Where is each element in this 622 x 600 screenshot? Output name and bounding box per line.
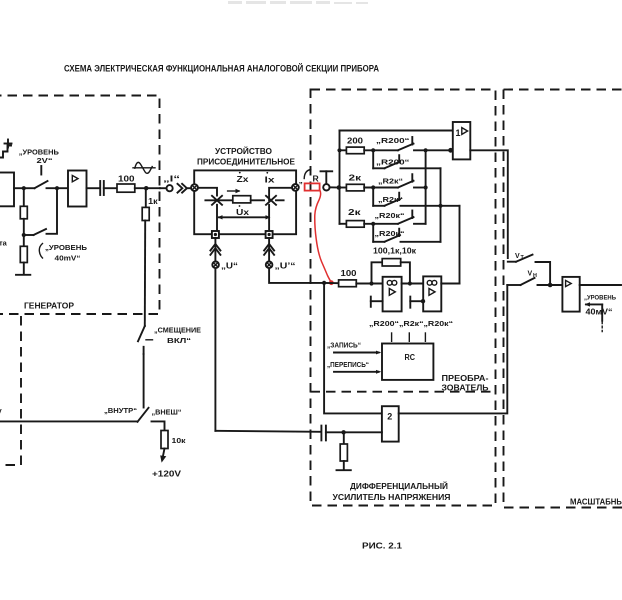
- svg-text:V: V: [528, 270, 533, 277]
- svg-text:„R20к“: „R20к“: [375, 211, 405, 220]
- op-amp 1 box: [453, 122, 471, 159]
- svg-text:ГЕНЕРАТОР: ГЕНЕРАТОР: [24, 302, 75, 311]
- row3 wire to bus A: [414, 187, 426, 189]
- connector circle on generator output: [167, 185, 173, 191]
- node F junction: [337, 185, 342, 190]
- wire U1 output to capacitor: [87, 187, 100, 189]
- row6 switch R20k: [373, 229, 400, 242]
- wire offset switch down to selector: [143, 354, 145, 408]
- svg-text:„U“: „U“: [221, 261, 238, 270]
- +120V supply arrow: [160, 449, 166, 463]
- svg-text:ЗОВАТЕЛЬ: ЗОВАТЕЛЬ: [442, 384, 489, 393]
- right measure node X: [266, 196, 276, 205]
- red junction dot: [329, 280, 334, 285]
- resistor R1 (vertical): [20, 206, 27, 219]
- svg-text:„I“: „I“: [163, 175, 180, 184]
- wire amp B output to bus C: [441, 283, 459, 285]
- svg-text:100: 100: [341, 269, 358, 278]
- ЗАПИСЬ input arrow: [334, 351, 381, 355]
- row5 switch R20k: [364, 211, 413, 224]
- riser row1-row2: [372, 150, 374, 168]
- row1 wire to amp input: [414, 149, 453, 151]
- output wire to right edge: [580, 284, 621, 286]
- amp B box (infinity gain): [423, 276, 441, 311]
- node C junction: [22, 233, 26, 237]
- svg-text:„R20к“: „R20к“: [375, 229, 405, 238]
- svg-text:2к: 2к: [349, 174, 362, 183]
- left measure node X: [212, 196, 222, 205]
- svg-text:+120V: +120V: [152, 469, 181, 479]
- svg-text:„ВНЕШ“: „ВНЕШ“: [152, 408, 182, 417]
- svg-text:2к: 2к: [348, 208, 361, 217]
- svg-text:RC: RC: [405, 353, 416, 362]
- svg-text:ПРИСОЕДИНИТЕЛЬНОЕ: ПРИСОЕДИНИТЕЛЬНОЕ: [197, 158, 296, 167]
- right arm down to bottom rail: [268, 205, 270, 231]
- wire from left edge to selector common: [0, 420, 138, 422]
- wire connector to node F: [330, 186, 340, 188]
- wire 1k down to offset switch: [144, 221, 146, 327]
- sine symbol: [133, 162, 155, 173]
- left shielding chevrons: [210, 244, 220, 255]
- svg-text:Zx: Zx: [237, 175, 250, 184]
- lower-left partial dashed block: [0, 316, 21, 465]
- wire U left down: [214, 238, 216, 431]
- U wire to coupling capacitor: [215, 431, 320, 432]
- switch VH: [507, 278, 534, 285]
- ground bar: [16, 274, 30, 276]
- VT wire to junction: [536, 262, 551, 285]
- left node stub: [205, 199, 232, 201]
- riser node B down to 40mV switch: [47, 188, 58, 234]
- wire chevron to device input connector: [187, 187, 192, 189]
- shield bar T symbol: [321, 170, 333, 172]
- wire amp output to VT: [470, 150, 508, 258]
- switch "СМЕЩЕНИЕ ВКЛ": [138, 326, 145, 354]
- double chevron coupling symbol: [178, 184, 187, 193]
- red resistor R (hand-drawn): [305, 183, 320, 190]
- svg-text:„R2к“: „R2к“: [378, 177, 403, 186]
- amp B input T-bar: [409, 297, 411, 308]
- row2 switch R200: [373, 155, 400, 168]
- wire ВНЕШ terminal to 10k: [152, 421, 165, 430]
- wire resistor to ground: [343, 461, 345, 470]
- wire 100 to node D: [135, 187, 160, 189]
- right U' connector (circle with X): [266, 262, 273, 269]
- svg-text:„ВНУТР“: „ВНУТР“: [104, 406, 137, 415]
- svg-text:„: „: [299, 176, 303, 185]
- svg-text:„УРОВЕНЬ: „УРОВЕНЬ: [45, 243, 88, 252]
- wire 100 to amp A: [356, 283, 382, 285]
- svg-text:2: 2: [387, 411, 392, 421]
- svg-text:РИС. 2.1: РИС. 2.1: [362, 541, 402, 551]
- hand-drawn hook over dashed border: [304, 170, 311, 179]
- row4 switch R2k: [373, 193, 400, 206]
- differential amplifier dashed block border: [311, 90, 496, 506]
- RC converter box: [382, 344, 433, 380]
- svg-text:100,1к,10к: 100,1к,10к: [373, 246, 416, 255]
- svg-text:„СМЕЩЕНИЕ: „СМЕЩЕНИЕ: [154, 326, 201, 335]
- wire amp A to amp B: [402, 283, 424, 285]
- connector circle after red R: [323, 184, 329, 190]
- left U connector (circle with X): [212, 262, 219, 269]
- resistor 2k row5: [340, 223, 347, 225]
- ladder left bus: [339, 131, 341, 224]
- node A junction: [22, 186, 26, 190]
- wire input to left arm: [198, 188, 217, 196]
- label Ux dot: [239, 205, 241, 207]
- right node stub: [276, 199, 284, 201]
- svg-text:ВКЛ“: ВКЛ“: [167, 336, 192, 345]
- node E wire and resistor 100: [324, 282, 339, 284]
- svg-text:40mV“: 40mV“: [55, 254, 81, 263]
- Ux double-arrow span: [218, 215, 271, 219]
- current direction arrow: [228, 189, 241, 193]
- scaling amplifier dashed block border: [504, 90, 622, 508]
- ground bar: [337, 469, 351, 471]
- svg-text:МАСШТАБНЫ: МАСШТАБНЫ: [570, 498, 622, 507]
- row2 wire to bus B: [401, 167, 441, 169]
- input block (clipped at left edge): [0, 173, 14, 207]
- svg-text:R: R: [313, 174, 320, 184]
- riser row5-row6: [372, 224, 374, 242]
- capacitor C2: [321, 426, 326, 441]
- switch VT: [508, 255, 533, 262]
- svg-text:Ix: Ix: [265, 175, 276, 184]
- resistor 100 (series): [117, 184, 135, 192]
- right rail connector (square): [266, 231, 273, 238]
- scaling op-amp box: [562, 277, 579, 312]
- svg-text:H: H: [533, 273, 537, 279]
- switch actuation mark (curved): [39, 244, 42, 259]
- block 2 output to VH riser: [399, 285, 508, 413]
- device output connector (circle with X): [292, 184, 299, 191]
- wire Zx to right node: [251, 199, 264, 201]
- svg-text:100: 100: [118, 174, 135, 184]
- svg-text:ДИФФЕРЕНЦИАЛЬНЫЙ: ДИФФЕРЕНЦИАЛЬНЫЙ: [350, 482, 448, 491]
- resistor 200: [340, 149, 347, 151]
- svg-text:Ux: Ux: [236, 208, 250, 217]
- wire: switch to node B: [47, 187, 69, 189]
- feedback top wire to amp: [340, 130, 453, 132]
- wire node A down to resistor R1: [23, 188, 25, 206]
- resistor 1k (vertical): [142, 207, 149, 220]
- svg-text:10к: 10к: [172, 436, 186, 445]
- svg-text:„R200“„R2к“„R20к“: „R200“„R2к“„R20к“: [369, 319, 453, 328]
- svg-text:„УРОВЕНЬ: „УРОВЕНЬ: [584, 294, 616, 301]
- riser row3-row4: [372, 188, 374, 206]
- switch "УРОВЕНЬ 40mV": [24, 229, 46, 235]
- node E riser down to block 2: [324, 283, 382, 414]
- leader ticks to RC: [392, 333, 426, 341]
- row6 wire to bus B: [401, 241, 441, 243]
- svg-text:1к: 1к: [148, 197, 158, 206]
- row1 switch R200: [364, 137, 413, 150]
- wire node D down to 1k resistor: [145, 188, 147, 207]
- block 2 box: [382, 406, 399, 441]
- resistor 10k (vertical): [161, 431, 168, 449]
- svg-text:„U’“: „U’“: [275, 261, 296, 270]
- faint cut-off text at top edge: [228, 1, 368, 4]
- generator dashed block border: [0, 96, 160, 315]
- resistor R2 (vertical): [20, 246, 27, 262]
- svg-text:1: 1: [456, 128, 461, 138]
- row4 wire to bus C: [401, 205, 460, 207]
- step-signal symbol (clipped at left edge): [0, 140, 12, 158]
- converter sub-block dashed divider: [311, 391, 496, 393]
- node D junction: [144, 186, 148, 190]
- svg-text:40мV“: 40мV“: [586, 308, 613, 317]
- svg-text:V: V: [515, 253, 520, 260]
- label Ix dot: [266, 172, 268, 174]
- bus C down to converter output: [459, 206, 461, 284]
- svg-text:„R200“: „R200“: [376, 157, 410, 166]
- selector switch ВНУТР/ВНЕШ blade: [138, 408, 149, 422]
- coupling capacitor C1: [100, 181, 104, 195]
- svg-text:„ПЕРЕПИСЬ“: „ПЕРЕПИСЬ“: [327, 360, 369, 369]
- ПЕРЕПИСЬ input arrow: [334, 370, 381, 374]
- switch contact tick: [146, 339, 153, 341]
- wire: block output to node A: [14, 187, 24, 189]
- amp A box (infinity gain): [383, 277, 402, 312]
- switch "УРОВЕНЬ 2V": [24, 166, 48, 188]
- svg-text:ПРЕОБРА-: ПРЕОБРА-: [442, 374, 489, 383]
- svg-text:СХЕМА ЭЛЕКТРИЧЕСКАЯ ФУНКЦИОН: СХЕМА ЭЛЕКТРИЧЕСКАЯ ФУНКЦИОНАЛЬНАЯ АНАЛО…: [64, 63, 379, 74]
- resistor 2k row3: [340, 187, 347, 189]
- svg-text:„ЗАПИСЬ“: „ЗАПИСЬ“: [327, 341, 361, 350]
- svg-text:200: 200: [347, 136, 364, 145]
- svg-text:2V“: 2V“: [37, 156, 53, 165]
- connecting device box: [194, 170, 296, 234]
- wire node D to output connector: [160, 187, 167, 189]
- red annotation squiggle: [315, 190, 332, 282]
- measured impedance resistor Zx: [233, 196, 251, 203]
- wire C2 to block 2: [326, 431, 382, 433]
- device input connector (circle with X): [191, 184, 198, 191]
- УРОВЕНЬ 40mV control arrow: [585, 302, 603, 321]
- node B junction: [55, 186, 59, 190]
- bus B: [440, 168, 442, 242]
- left rail connector (square): [212, 231, 219, 238]
- wire U' right down then to node E: [269, 238, 324, 283]
- amp A input T-bar: [370, 297, 372, 307]
- svg-text:та: та: [0, 239, 8, 248]
- bus A: [425, 150, 427, 224]
- wire right node up to output connector: [269, 188, 292, 201]
- feedback loop around amp A: [372, 262, 383, 283]
- op-amp U1 box: [68, 171, 87, 207]
- row5 wire to bus A: [414, 223, 426, 225]
- svg-text:„R2к“: „R2к“: [378, 195, 403, 204]
- row3 switch R2k: [364, 174, 413, 187]
- right shielding chevrons: [264, 244, 274, 255]
- svg-text:УСИЛИТЕЛЬ НАПРЯЖЕНИЯ: УСИЛИТЕЛЬ НАПРЯЖЕНИЯ: [333, 493, 451, 502]
- svg-text:УСТРОЙСТВО: УСТРОЙСТВО: [215, 147, 272, 156]
- VH wire to junction and amp: [538, 284, 563, 286]
- wire R2 to ground: [23, 263, 25, 275]
- label Zx dot: [239, 172, 241, 174]
- left arm down to bottom rail: [216, 205, 218, 231]
- op-amp U1 triangle: [72, 175, 78, 181]
- svg-text:„R200“: „R200“: [376, 136, 410, 145]
- wire R1 to node C: [23, 219, 25, 247]
- wire C1 to resistor 100: [104, 187, 117, 189]
- resistor below node: [343, 432, 345, 444]
